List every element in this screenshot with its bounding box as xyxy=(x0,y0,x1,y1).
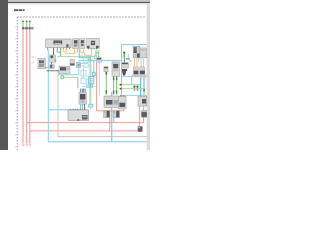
unit D pins xyxy=(88,48,97,49)
wire red bottom bus xyxy=(97,109,124,112)
wire gray from block J xyxy=(98,62,100,96)
highlight box cyan outline xyxy=(122,45,147,96)
wire black horizontal to Y xyxy=(47,70,60,72)
capacitor loop cyan top1 xyxy=(83,58,88,63)
fuse block xyxy=(77,62,81,67)
wire cyan inner drop xyxy=(122,77,132,85)
unit R pins xyxy=(120,95,124,96)
wire green U left xyxy=(113,77,115,95)
wire teal right short xyxy=(143,77,145,88)
wire gray W pin up xyxy=(128,54,130,58)
wire cyan bright stub xyxy=(126,58,130,60)
relay block K1 xyxy=(50,55,57,62)
wire green U right xyxy=(116,77,118,95)
wire cyan fuse link xyxy=(81,64,84,66)
speaker S2 xyxy=(113,111,120,118)
capacitor loop cyan 2 xyxy=(81,78,86,83)
wire dark K1 to K2 xyxy=(51,62,53,64)
wire cyan stub above M xyxy=(111,92,113,96)
connector small mid xyxy=(104,67,108,72)
wire cyan below Y xyxy=(58,74,78,76)
page right edge strip xyxy=(147,3,150,150)
wire orange W pair xyxy=(135,58,137,67)
wire cyan to ticks box xyxy=(86,79,89,81)
wire red horizontal bus lower xyxy=(30,130,138,132)
page top shadow fade xyxy=(8,3,150,6)
unit R xyxy=(118,96,126,109)
wire green from ring xyxy=(64,76,78,78)
wire red from block J xyxy=(96,62,98,110)
unit G small dark xyxy=(138,126,143,131)
speaker S1 xyxy=(104,111,110,118)
connector block right 2 xyxy=(140,67,145,74)
unit W speaker grille xyxy=(133,46,140,57)
unit M bottom center xyxy=(104,96,119,107)
wire teal stub between W X xyxy=(138,58,140,62)
unit Q amplifier xyxy=(68,110,89,121)
unit B xyxy=(73,39,79,49)
wire green battery feed 2 xyxy=(26,21,28,28)
wire blue drop xyxy=(93,61,95,81)
page background xyxy=(0,0,150,150)
relay block side xyxy=(70,60,75,66)
border left tick marks xyxy=(15,27,17,147)
wire green right stub xyxy=(143,92,145,97)
wire label marks pink xyxy=(32,57,35,64)
ticks box cyan xyxy=(89,77,94,84)
unit V small xyxy=(122,63,129,68)
wire green right horizontal 2 xyxy=(119,88,144,90)
capacitor loop cyan 1 xyxy=(81,71,86,76)
wire black G2 to V xyxy=(123,58,125,63)
unit P pin wires xyxy=(81,104,85,110)
border top dashed xyxy=(17,16,145,18)
wire stub N to cyan xyxy=(45,67,48,69)
connector block row top-left xyxy=(22,27,34,29)
wire red horizontal bus upper xyxy=(27,122,144,124)
unit Y xyxy=(59,66,70,73)
wire red S2 drop xyxy=(113,118,115,123)
connector block right 1 xyxy=(133,67,138,74)
wire teal right long xyxy=(140,77,142,96)
wire cyan bright vertical xyxy=(111,107,113,141)
green bar right 1 xyxy=(134,86,136,91)
connector cyan small b xyxy=(94,56,97,59)
wire red E left drop xyxy=(139,106,141,126)
viewer sidebar xyxy=(0,0,8,150)
wire green mid vertical xyxy=(105,72,107,95)
wire cyan between loops xyxy=(82,67,84,78)
green caps U wires xyxy=(113,77,117,93)
wire green double vertical xyxy=(90,57,91,105)
wire cyan radio feed (long) xyxy=(48,49,147,142)
wire green battery feed 3 xyxy=(29,21,31,28)
connector cyan small a xyxy=(88,57,90,60)
unit P antenna amp xyxy=(79,93,86,105)
connector caps above amp xyxy=(80,89,86,93)
arrow red 3 xyxy=(29,144,31,146)
wire red S1 drop xyxy=(109,118,111,131)
unit F small dark xyxy=(141,110,147,117)
page top edge light strip xyxy=(8,0,150,2)
wire green bus horizontal xyxy=(57,56,95,58)
wire red main 2 vertical xyxy=(26,29,28,143)
highlight box bottom cyan xyxy=(122,95,147,97)
wire orange speaker pair A xyxy=(63,49,77,54)
unit U door speaker driver xyxy=(112,62,119,76)
wire red main 1 vertical xyxy=(22,29,24,143)
block K2 xyxy=(50,65,55,69)
green cap mid xyxy=(106,90,108,93)
green bar right 2 xyxy=(137,86,139,91)
wire cyan under ticks box xyxy=(82,86,96,88)
green caps left ends xyxy=(120,84,122,90)
unit A pins xyxy=(47,48,70,49)
wire red E right drop xyxy=(143,106,145,123)
capacitor loop cyan top2 xyxy=(84,63,88,67)
gray bar right xyxy=(131,75,146,78)
wire cyan drop through fuse xyxy=(78,61,80,75)
unit A head unit xyxy=(46,39,72,48)
connector blue small xyxy=(89,104,93,107)
green cap mid top xyxy=(106,72,108,75)
unit E right xyxy=(138,97,147,107)
wire green battery feed 1 xyxy=(22,21,24,28)
wire blue stub to amp bus xyxy=(89,107,91,110)
resistor block J xyxy=(97,58,101,62)
page top edge dark line xyxy=(8,2,150,3)
wire orange X pair xyxy=(141,58,143,67)
wire red main 3 vertical xyxy=(29,29,31,143)
speaker T1 xyxy=(121,69,127,76)
unit D cd changer xyxy=(87,38,100,48)
unit N left connector xyxy=(38,58,45,68)
connector cyan small c xyxy=(87,85,89,88)
unit C xyxy=(80,39,85,49)
wire green pair from unit D xyxy=(96,50,99,58)
unit U pins xyxy=(113,76,117,77)
wire green pair from unit A xyxy=(57,49,61,57)
wire green right horizontal 1 xyxy=(119,84,141,86)
arrow red 1 xyxy=(22,144,24,146)
wire green bus horizontal 2 xyxy=(80,54,96,56)
ground ring green xyxy=(61,76,64,79)
wire teal from unit C xyxy=(79,49,88,58)
connector cyan small d xyxy=(90,85,92,88)
wire gray ground vertical xyxy=(58,71,147,137)
wire green vertical ladder xyxy=(77,77,79,88)
wire black from unit A xyxy=(53,49,55,55)
unit X xyxy=(140,48,147,58)
wire cyan bus to right unit xyxy=(79,58,121,61)
unit Q top pins xyxy=(70,109,85,110)
wire cyan amp feed horizontal xyxy=(48,109,79,111)
wire orange speaker pair B xyxy=(81,49,92,55)
arrow red 2 xyxy=(26,144,28,146)
gray marks near W xyxy=(130,60,132,61)
title text xyxy=(14,9,25,11)
green cap teal end xyxy=(143,89,145,92)
border left dashed xyxy=(16,17,18,150)
green connector G2 xyxy=(123,52,125,58)
connector blue mid xyxy=(93,72,96,76)
